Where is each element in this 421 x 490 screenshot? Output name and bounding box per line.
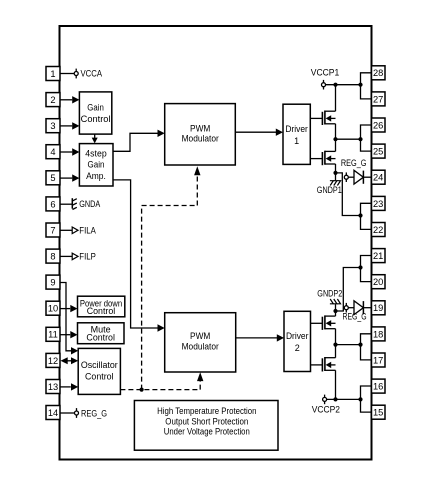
svg-text:Control: Control	[87, 306, 116, 316]
node VCCP1 at pins 28-27	[358, 83, 362, 87]
pin 16	[372, 379, 386, 393]
terminal REG_G top	[344, 172, 348, 182]
wire diode D2 to pin 19	[363, 307, 371, 309]
node VCCP2 at pins 16-15	[358, 397, 362, 401]
svg-text:Amp.: Amp.	[86, 171, 106, 181]
IC outline	[60, 26, 372, 460]
pin 26	[372, 118, 386, 132]
svg-text:VCCP2: VCCP2	[312, 405, 340, 415]
pin 10	[46, 301, 60, 315]
svg-text:27: 27	[373, 94, 383, 104]
wire GNDP1 stub	[335, 173, 337, 180]
arrow into PWM modulator 1 bottom	[194, 166, 200, 175]
arrow into oscillator pin12 (right)	[71, 357, 78, 364]
svg-text:GNDA: GNDA	[79, 199, 100, 209]
mute control block	[78, 323, 125, 344]
pin 2	[46, 93, 60, 107]
wire pins 26-25 bracket	[361, 125, 372, 151]
svg-text:3: 3	[50, 121, 55, 131]
svg-text:14: 14	[48, 408, 58, 418]
svg-text:GNDP1: GNDP1	[317, 185, 342, 195]
node GNDP2	[333, 309, 337, 313]
wire GNDP2 stub	[335, 304, 337, 311]
arrow into pin12 (left)	[61, 357, 68, 364]
arrow into driver 1	[276, 129, 283, 136]
svg-text:Gain: Gain	[87, 102, 104, 112]
svg-text:11: 11	[48, 330, 58, 340]
node output 2	[333, 343, 337, 347]
pin 4	[46, 145, 60, 159]
wire PWM modulator 1 to driver 1	[235, 131, 276, 133]
svg-text:20: 20	[373, 277, 383, 287]
svg-text:Control: Control	[81, 114, 111, 124]
diode D2	[354, 301, 363, 315]
svg-text:12: 12	[48, 356, 58, 366]
wire output node to Q2 drain	[335, 139, 337, 151]
terminal REG_G pin14	[75, 408, 79, 418]
svg-text:1: 1	[50, 69, 55, 79]
driver 2 block	[284, 311, 311, 371]
svg-text:Control: Control	[85, 371, 114, 381]
arrow into oscillator pin13	[71, 383, 78, 390]
node output2 at pins 18-17	[358, 343, 362, 347]
pin 28	[372, 66, 386, 80]
svg-text:Control: Control	[86, 332, 115, 342]
svg-text:FILP: FILP	[79, 251, 96, 261]
wire pin14 to REG_G terminal	[60, 412, 75, 414]
wire pin4 to 4step amp	[60, 151, 72, 153]
pin 1	[46, 67, 60, 81]
wire pin2 to gain control	[60, 99, 72, 101]
svg-text:Under Voltage Protection: Under Voltage Protection	[164, 427, 250, 437]
wire output1 to pins 26-25	[336, 138, 361, 140]
VCCP1 rail wire	[326, 84, 361, 86]
svg-text:PWM: PWM	[190, 123, 210, 133]
node output1 at pins 26-25	[358, 137, 362, 141]
wire Q2 source to GNDP1 node	[335, 164, 337, 173]
wire pin3 to gain control	[60, 125, 72, 127]
svg-text:Output Short Protection: Output Short Protection	[165, 416, 248, 426]
wire pin12 to oscillator control	[67, 360, 73, 362]
dashed clock wire up to PWM1	[142, 174, 198, 390]
diode D1	[354, 170, 363, 184]
pin 23	[372, 196, 386, 210]
pin 11	[46, 327, 60, 341]
svg-text:23: 23	[373, 199, 383, 209]
svg-text:High Temperature Protection: High Temperature Protection	[157, 406, 256, 416]
wire Q3 drain to GNDP2 node	[335, 311, 337, 316]
wire pin13 to oscillator control	[60, 386, 71, 388]
svg-text:26: 26	[373, 120, 383, 130]
transistor Q4	[322, 357, 335, 372]
arrow into PWM modulator 2	[158, 324, 165, 331]
wire pin8 to FILP	[60, 255, 72, 257]
svg-text:1: 1	[294, 136, 299, 146]
svg-text:Gain: Gain	[88, 159, 105, 169]
ground GNDA	[72, 198, 77, 209]
wire pin1 to VCCA terminal	[60, 73, 74, 75]
node output 1	[333, 137, 337, 141]
terminal REG_G bottom	[344, 303, 348, 313]
svg-text:VCCA: VCCA	[81, 69, 103, 79]
arrow into 4step amp from gain control	[92, 138, 98, 144]
svg-text:13: 13	[48, 382, 58, 392]
4-step gain amp block	[79, 144, 113, 186]
protection note box	[134, 401, 278, 451]
arrow into 4step amp pin4	[72, 148, 79, 155]
wire PWM modulator 2 to driver 2	[236, 337, 278, 339]
pin 27	[372, 92, 386, 106]
wire pin7 to FILA	[60, 229, 72, 231]
wire pin5 to 4step amp	[60, 177, 72, 179]
wire REG_G terminal to diode D1	[348, 176, 354, 178]
buffer symbol FILP	[72, 253, 78, 260]
pin 25	[372, 144, 386, 158]
wire pin9 to oscillator control	[60, 283, 71, 351]
terminal VCCP1	[322, 80, 326, 90]
svg-text:6: 6	[50, 199, 55, 209]
arrow into gain control pin3	[72, 122, 79, 129]
svg-text:22: 22	[373, 225, 383, 235]
svg-text:2: 2	[295, 343, 300, 353]
pin 22	[372, 223, 386, 237]
VCCP2 rail wire	[327, 398, 361, 400]
dashed clock wire up to PWM2	[199, 381, 201, 390]
wire driver2 to Q3 gate	[311, 322, 323, 324]
svg-text:4: 4	[50, 147, 55, 157]
svg-text:10: 10	[48, 304, 58, 314]
wire diode D1 to pin 24	[363, 176, 371, 178]
pin 21	[372, 249, 386, 263]
svg-text:Modulator: Modulator	[182, 341, 219, 351]
pin 5	[46, 171, 60, 185]
svg-text:VCCP1: VCCP1	[311, 67, 340, 77]
svg-text:18: 18	[373, 329, 383, 339]
svg-text:24: 24	[373, 173, 383, 183]
wire pins 28-27 bracket	[361, 73, 372, 99]
svg-text:21: 21	[373, 251, 383, 261]
wire Q1 drain to VCCP1 rail	[335, 85, 337, 112]
wire pins 21-20 bracket	[361, 256, 372, 282]
svg-text:16: 16	[373, 382, 383, 392]
terminal VCCP2	[323, 395, 327, 405]
svg-text:REG_G: REG_G	[341, 158, 367, 168]
svg-text:FILA: FILA	[79, 225, 96, 235]
svg-text:GNDP2: GNDP2	[317, 288, 342, 298]
arrow into PWM modulator 2 bottom	[197, 372, 203, 381]
wire 4step amp to PWM modulator 1	[113, 133, 158, 151]
wire driver1 to Q2 gate	[310, 158, 322, 160]
svg-text:PWM: PWM	[190, 331, 210, 341]
svg-text:15: 15	[373, 408, 383, 418]
svg-text:Driver: Driver	[286, 331, 309, 341]
svg-text:REG_G: REG_G	[81, 408, 107, 418]
wire driver2 to Q4 gate	[311, 364, 323, 366]
pin 17	[372, 353, 386, 367]
wire REG_G terminal to diode D2	[348, 307, 354, 309]
PWM modulator 2	[165, 313, 236, 372]
wire pins 16-15 bracket	[361, 386, 372, 412]
wire pins 18-17 bracket	[361, 334, 372, 360]
wire output2 to pins 18-17	[336, 344, 361, 346]
pin 7	[46, 223, 60, 237]
ground GNDP2	[330, 299, 341, 304]
pin 12	[46, 353, 60, 367]
terminal VCCA	[74, 69, 78, 79]
wire pins 23-22 bracket	[361, 203, 372, 229]
pin 15	[372, 405, 386, 419]
wire Q4 source to VCCP2 rail	[335, 370, 337, 399]
arrow into mute control	[70, 331, 77, 338]
arrow into 4step amp pin5	[72, 174, 79, 181]
node VCCP2 at FET source	[333, 397, 337, 401]
transistor Q1	[322, 111, 335, 126]
pin 3	[46, 119, 60, 133]
pin 18	[372, 327, 386, 341]
pin 9	[46, 275, 60, 289]
pin 20	[372, 275, 386, 289]
pin 19	[372, 301, 386, 315]
wire 4step amp to PWM modulator 2	[113, 180, 158, 328]
arrow into oscillator pin9	[71, 347, 78, 354]
ground GNDP1	[330, 181, 341, 186]
arrow into power down control	[70, 305, 77, 312]
transistor Q2	[322, 151, 335, 166]
svg-text:17: 17	[373, 355, 383, 365]
svg-text:8: 8	[50, 252, 55, 262]
svg-text:25: 25	[373, 147, 383, 157]
svg-text:Oscillator: Oscillator	[81, 360, 118, 370]
node GNDP2 at pins 21-20	[358, 265, 362, 269]
arrow into gain control pin2	[72, 96, 79, 103]
svg-text:Modulator: Modulator	[182, 134, 219, 144]
pin 6	[46, 197, 60, 211]
transistor Q3	[322, 315, 335, 330]
arrow into driver 2	[277, 334, 284, 341]
PWM modulator 1	[165, 104, 236, 165]
svg-text:2: 2	[50, 95, 55, 105]
svg-text:7: 7	[50, 225, 55, 235]
wire pin10 to power down control	[60, 308, 70, 310]
svg-text:28: 28	[373, 68, 383, 78]
arrow into PWM modulator 1	[158, 130, 165, 137]
gain control block	[79, 92, 111, 134]
wire driver1 to Q1 gate	[310, 117, 322, 119]
svg-text:19: 19	[373, 303, 383, 313]
wire GNDP1 to pins 23-22	[336, 173, 361, 216]
pin 13	[46, 380, 60, 394]
node clock junction	[140, 388, 144, 392]
node GNDP1	[333, 171, 337, 175]
wire Q3 source to output node 2	[335, 329, 337, 345]
oscillator control block	[78, 348, 120, 394]
svg-text:5: 5	[50, 173, 55, 183]
wire Q1 source to output node	[335, 124, 337, 139]
wire pins 21-20 to GNDP2 node	[336, 268, 361, 312]
buffer symbol FILA	[72, 227, 78, 234]
wire output2 to Q4 drain	[335, 345, 337, 358]
pin 8	[46, 249, 60, 263]
driver 1 block	[283, 104, 310, 164]
wire pin11 to mute control	[60, 334, 70, 336]
wire gain control to 4step amp	[94, 134, 96, 139]
node GNDP1 at pins 23-22	[358, 213, 362, 217]
svg-text:4step: 4step	[85, 149, 106, 159]
svg-text:9: 9	[50, 278, 55, 288]
wire pin6 to GNDA	[60, 203, 72, 205]
pin 24	[372, 170, 386, 184]
node VCCP1 at FET drain	[333, 83, 337, 87]
dashed clock wire from oscillator control	[120, 389, 200, 391]
power down control block	[78, 296, 125, 317]
svg-text:Driver: Driver	[285, 124, 308, 134]
pin 14	[46, 406, 60, 420]
